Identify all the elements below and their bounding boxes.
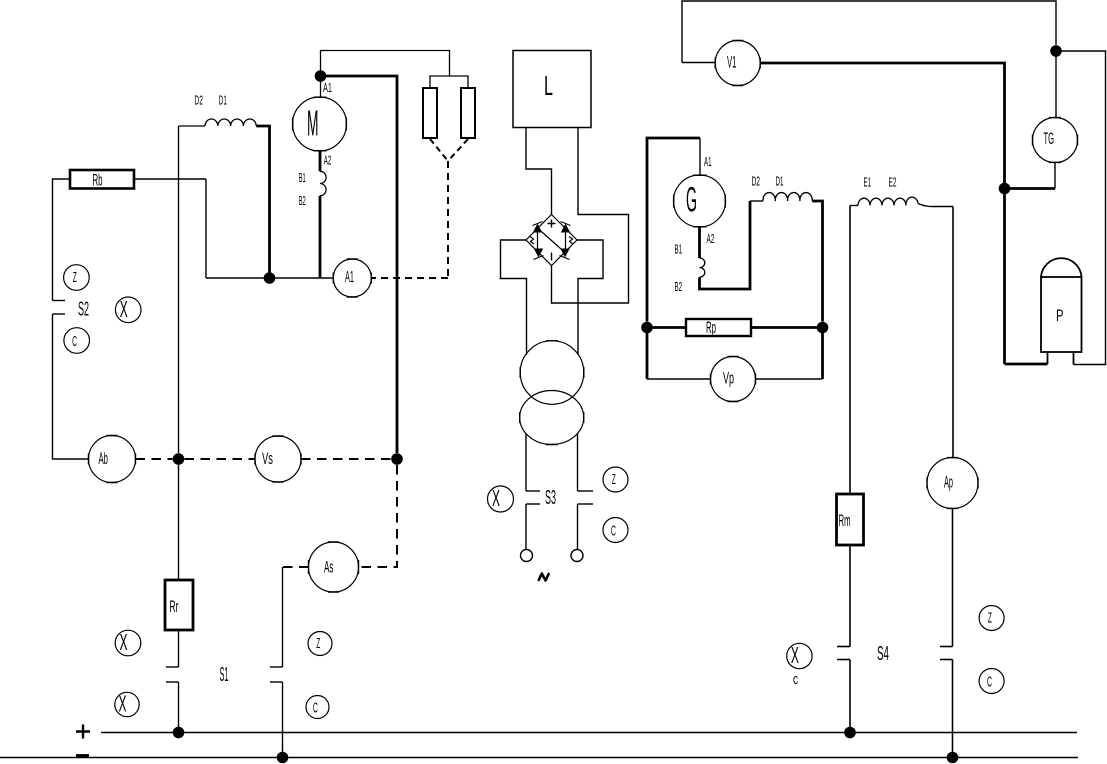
bridge diode arrow lower-left	[534, 249, 543, 258]
switch S3 left pole top tick	[526, 490, 540, 492]
node: dot where dashed line meets thick bus	[391, 453, 403, 465]
svg-text:X: X	[791, 642, 799, 668]
svg-text:B2: B2	[299, 193, 306, 208]
svg-text:B1: B1	[675, 242, 683, 257]
svg-text:S4: S4	[877, 642, 889, 665]
bridge diode bar tick upper-left	[533, 222, 543, 226]
plus supply rail	[101, 732, 1077, 734]
wire: to Vp left lead	[647, 378, 711, 380]
ammeter As circle	[309, 542, 359, 592]
fuse F2 body	[461, 88, 475, 138]
terminal circle X (S2)	[115, 297, 141, 323]
terminal circle Z (S4)	[979, 606, 1004, 631]
node: dot TG line on bus	[999, 183, 1011, 195]
wire: bridge right ac terminal to transformer	[577, 240, 603, 355]
wire: generator top loop (thick)	[647, 138, 700, 322]
wire: bus to P left foot (thick)	[1005, 363, 1048, 366]
svg-text:A2: A2	[324, 153, 332, 168]
wire: transformer right secondary down to S3	[577, 434, 579, 492]
ammeter As connection ticks	[309, 542, 359, 592]
prime mover P right foot	[1073, 352, 1075, 365]
transformer T1 lower winding ellipse	[520, 391, 584, 445]
svg-text:Rr: Rr	[170, 597, 179, 616]
svg-text:Z: Z	[73, 270, 77, 286]
svg-text:B1: B1	[299, 170, 306, 185]
node: dot S1 right pole on minus rail	[277, 752, 289, 764]
svg-text:A2: A2	[707, 231, 715, 246]
resistor Rr box	[165, 580, 193, 630]
fuse F1 body	[423, 88, 437, 138]
voltmeter Vs connection ticks	[255, 436, 301, 482]
svg-text:S1: S1	[220, 663, 229, 686]
switch S4 left pole top tick	[837, 646, 850, 648]
wire: S3 right pole down to source terminal	[577, 504, 579, 550]
node: dot S1 left pole on plus rail	[173, 727, 185, 739]
terminal circle C (S2)	[64, 328, 90, 354]
prime mover P body	[1041, 277, 1082, 352]
bridge ac squiggle right	[569, 237, 573, 245]
inductor: generator commutating winding B1-B2 (two bumps)	[700, 258, 705, 277]
bridge rectifier internal diagonal	[539, 229, 566, 253]
inductor: motor commutating winding B1-B2 (two bumps)	[320, 171, 326, 195]
wire: dashed node to voltmeter Vs	[185, 458, 256, 460]
wire: E2 lead down to ammeter Ap	[952, 207, 954, 458]
fuse bracket wiring above fuses F1 F2	[430, 76, 468, 88]
terminal circle X lower (S1)	[115, 692, 139, 716]
voltmeter Vp connection ticks	[711, 357, 756, 402]
svg-text:C: C	[72, 333, 77, 350]
wire: generator armature lead A2 (thick)	[698, 227, 701, 258]
ammeter Ab connection ticks	[89, 436, 136, 483]
wire: thick line node to Rp left	[647, 326, 686, 329]
wire: dashed vertical from Y point down	[447, 161, 449, 278]
svg-text:Rm: Rm	[839, 511, 851, 530]
resistor Rm box	[837, 494, 864, 545]
wire: V1 left lead	[682, 62, 715, 64]
wire: Rm bottom to S4 left pole	[849, 545, 851, 647]
terminal circle X upper (S1)	[115, 630, 141, 656]
wire: from top-right node to far right vertical down to P	[1056, 51, 1106, 365]
inductor: exciter winding E1-E2 coil (5 bumps)	[858, 197, 918, 205]
wire: vertical from field coil D2 lead down to dashed node	[178, 126, 180, 453]
wire: S3 left pole down to source terminal	[525, 504, 527, 550]
terminal: ac source open circle left	[521, 550, 533, 562]
switch S3 left pole bottom tick	[526, 503, 540, 505]
wire: Rb left lead down to switch S2 top contact	[53, 179, 71, 301]
bridge plus mark	[548, 220, 556, 228]
bridge rectifier VD diamond outline	[526, 215, 577, 266]
switch S2 top contact tick	[53, 300, 66, 302]
inductor block L box	[513, 51, 591, 128]
svg-text:Z: Z	[612, 472, 616, 488]
resistor Rb box	[70, 170, 134, 189]
node: dot S4 left pole on plus rail	[844, 727, 856, 739]
ammeter A1 circle	[333, 259, 371, 297]
wire: left node down to voltmeter Vp loop (thick)	[646, 328, 649, 380]
wire: horizontal armature bottom line to ammeter A1	[206, 277, 333, 279]
svg-text:E1: E1	[864, 175, 872, 190]
wire: dashed fuse F1 bottom to Y point	[430, 139, 448, 161]
wire: motor top loop from node A1 up over to fuse bracket	[321, 51, 450, 98]
wire: field D1 lead to thick vertical down to junction	[256, 126, 269, 278]
wire: Rb right lead	[134, 178, 206, 180]
wire: TG to bus (thick)	[1005, 187, 1056, 190]
node: dot right end of Rp line	[817, 322, 829, 334]
wire: generator A1 lead	[699, 138, 701, 175]
prime mover P dome	[1041, 258, 1082, 277]
svg-text:S2: S2	[78, 298, 89, 321]
svg-text:B2: B2	[675, 279, 683, 294]
svg-text:D2: D2	[752, 174, 761, 189]
svg-text:P: P	[1056, 306, 1064, 325]
wire: bridge left ac terminal to transformer	[501, 240, 527, 355]
svg-text:A1: A1	[345, 269, 354, 286]
resistor Rp box	[686, 319, 751, 336]
svg-text:Rb: Rb	[93, 171, 103, 190]
svg-text:V1: V1	[727, 53, 737, 72]
ammeter Ab circle	[89, 436, 136, 483]
switch S3 right pole bottom tick	[578, 503, 594, 505]
svg-text:Vs: Vs	[262, 449, 273, 468]
terminal circle C (S1)	[306, 696, 329, 719]
terminal circle X (S4)	[787, 643, 812, 668]
switch S4 right pole bottom tick	[940, 659, 953, 661]
svg-text:Z: Z	[988, 611, 992, 627]
wire: dashed horizontal to ammeter A1	[371, 277, 448, 279]
wire: motor armature lead A2 (thick)	[319, 151, 322, 171]
wire: dashed fuse F2 bottom to Y point	[448, 139, 468, 161]
wire: L left lead down to bridge + terminal	[526, 128, 552, 215]
svg-text:L: L	[544, 70, 553, 101]
minus supply rail	[0, 757, 1078, 759]
wire: Ap bottom to S4 right pole	[952, 508, 954, 646]
terminal circle Z (S1)	[308, 632, 332, 656]
wire: dashed Vs to thick-bus node	[301, 458, 391, 460]
wire: vertical from Rb wire down to armature bottom line	[205, 179, 207, 278]
wire: motor armature lead below B2 (thick)	[319, 196, 322, 278]
wire: node down to tachogenerator TG	[1055, 51, 1057, 118]
switch S1 right pole top tick	[270, 666, 283, 668]
terminal circle C (S4)	[979, 669, 1004, 694]
wire: S1 left pole down to plus rail	[178, 682, 180, 733]
terminal circle X (S3)	[488, 486, 514, 512]
svg-text:D2: D2	[194, 93, 203, 108]
wire: coil tail to right lead	[918, 204, 953, 207]
transformer T1 upper winding ticks	[520, 341, 584, 378]
wire: Vp right lead	[756, 378, 823, 380]
prime mover P left foot	[1047, 352, 1049, 364]
wire: L right lead down around to bridge - terminal	[552, 128, 629, 304]
bridge diode bar tick upper-right	[561, 222, 571, 226]
wire: S4 right pole down across plus rail to minus rail	[952, 660, 954, 758]
svg-text:D1: D1	[776, 174, 784, 189]
svg-text:Vp: Vp	[723, 369, 734, 388]
svg-text:E2: E2	[889, 175, 897, 190]
bridge minus mark	[551, 253, 553, 261]
motor M1 circle	[293, 97, 347, 151]
inductor: exciter winding E1-E2 lead left	[850, 205, 858, 207]
switch S1 left pole top tick	[166, 666, 179, 668]
wire: V1 right lead thick bus down right side	[760, 63, 1004, 364]
voltmeter Vs circle	[255, 436, 301, 482]
terminal circle Z (S3)	[603, 467, 628, 492]
transformer T1 upper winding circle	[520, 341, 584, 405]
svg-text:G: G	[686, 181, 697, 220]
bridge diode arrow lower-right	[560, 249, 569, 258]
svg-text:X: X	[492, 485, 500, 511]
svg-text:A1: A1	[323, 80, 332, 95]
switch S1 right pole bottom tick	[270, 681, 283, 683]
svg-text:X: X	[119, 691, 127, 717]
svg-text:Ab: Ab	[99, 449, 109, 468]
wire: dashed As left lead	[283, 566, 309, 568]
wire: generator B2 elbow to field coil (thick)	[700, 201, 751, 289]
wire: thick bus from node A1 right and down to Vs node	[321, 76, 398, 453]
svg-text:Rp: Rp	[706, 318, 716, 337]
wire: S2 bottom down and right to Ab	[53, 314, 89, 459]
wire: E1 lead down to Rm	[849, 206, 851, 495]
tachogenerator TG connection ticks	[1033, 118, 1078, 163]
terminal circle C (S3)	[603, 518, 628, 543]
ac source squiggle symbol	[539, 574, 549, 581]
svg-text:C: C	[611, 523, 616, 540]
voltmeter V1 circle	[715, 41, 760, 86]
wire: node down to resistor Rr	[178, 459, 180, 580]
svg-text:c: c	[793, 671, 798, 688]
svg-text:M: M	[307, 103, 319, 144]
transformer T1 lower winding ticks	[520, 412, 584, 445]
svg-text:TG: TG	[1044, 129, 1055, 148]
motor M1 connection ticks	[293, 97, 347, 151]
voltmeter V1 connection ticks	[715, 41, 760, 86]
inductor: generator field D2-D1 coil (4 bumps)	[763, 193, 812, 201]
bridge ac squiggle left	[530, 237, 534, 245]
wire: top loop to voltmeter V1	[682, 1, 1056, 63]
svg-text:Ap: Ap	[944, 473, 953, 492]
node: dot top right corner	[1050, 45, 1062, 57]
bridge diode arrow upper-left	[533, 224, 542, 233]
generator G1 circle	[674, 175, 726, 227]
switch S1 left pole bottom tick	[166, 681, 179, 683]
wire: dashed from node down then left to ammeter As	[359, 465, 398, 567]
wire: up to right node (thick)	[821, 328, 824, 380]
switch S2 bottom contact tick	[53, 313, 66, 315]
minus sign	[76, 754, 89, 757]
switch S4 right pole top tick	[940, 646, 953, 648]
svg-text:C: C	[313, 700, 318, 717]
node: dot left end of Rp line	[641, 322, 653, 334]
generator G1 connection ticks	[674, 175, 726, 227]
node: motor terminal A1 junction dot	[315, 70, 327, 82]
voltmeter Vp circle	[711, 357, 756, 402]
wire: field D1 lead down to Rp right node (thick)	[812, 201, 822, 322]
svg-text:A1: A1	[704, 154, 712, 169]
tachogenerator TG circle	[1033, 118, 1078, 163]
bridge diode bar tick lower-right	[560, 256, 570, 260]
node: dot S4 right pole on minus rail	[947, 752, 959, 764]
wire: S1 right pole down across plus rail to minus rail	[282, 682, 284, 758]
node: junction dot field/armature bottom	[264, 272, 276, 284]
wire: dashed Ab to node (shunt measuring line)	[136, 458, 173, 460]
bridge diode arrow upper-right	[561, 224, 570, 233]
plus sign	[76, 725, 90, 739]
svg-text:X: X	[120, 296, 128, 322]
switch S3 right pole top tick	[578, 490, 594, 492]
inductor: motor shunt field D2-D1 lead left	[179, 125, 206, 127]
svg-text:C: C	[987, 674, 992, 691]
terminal circle Z (S2)	[64, 265, 90, 291]
svg-text:X: X	[120, 629, 128, 655]
svg-text:D1: D1	[219, 93, 227, 108]
wire: down to switch S1 right pole	[282, 567, 284, 667]
wire: Rp right to node (thick)	[751, 326, 823, 329]
bridge rectifier internal left arm	[537, 228, 539, 254]
bridge diode bar tick lower-left	[534, 256, 544, 260]
svg-text:S3: S3	[545, 486, 556, 509]
ammeter Ap circle	[927, 458, 978, 509]
node: dot at Rr branch on dashed line	[173, 453, 185, 465]
wire: S4 left pole down to plus rail	[849, 660, 851, 733]
wire: transformer left secondary down to S3	[525, 434, 527, 492]
inductor: generator field D2-D1 lead left	[750, 200, 763, 202]
inductor: motor shunt field D2-D1 coil (4 bumps)	[205, 119, 256, 126]
switch S4 left pole bottom tick	[837, 659, 850, 661]
svg-text:Z: Z	[316, 636, 320, 652]
bridge rectifier internal right arm	[565, 228, 567, 254]
svg-text:As: As	[324, 558, 334, 577]
wire: Rr bottom to switch S1 left pole	[178, 630, 180, 667]
wire: TG bottom lead	[1054, 162, 1056, 188]
terminal: ac source open circle right	[571, 550, 583, 562]
ammeter Ap connection ticks	[927, 458, 978, 509]
ammeter A1 connection ticks	[333, 259, 371, 297]
